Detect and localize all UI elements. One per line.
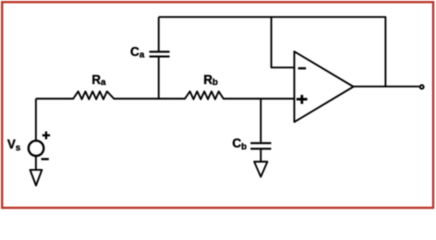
svg-text:R: R xyxy=(92,73,101,87)
svg-text:C: C xyxy=(130,45,139,59)
svg-text:s: s xyxy=(16,142,21,152)
svg-text:C: C xyxy=(232,137,241,151)
svg-text:b: b xyxy=(212,77,218,87)
svg-text:b: b xyxy=(241,142,247,152)
svg-text:R: R xyxy=(204,73,213,87)
